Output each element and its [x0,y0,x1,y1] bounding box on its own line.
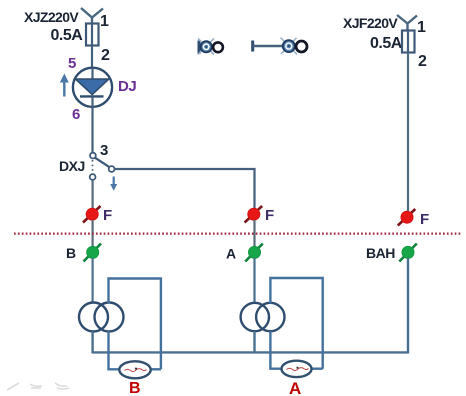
relay DJ (gas relay circle with triangle) [73,68,112,107]
meter PJ2 (energy meter A) [282,361,312,377]
svg-text:3: 3 [100,142,108,159]
icon: current transformer symbol 1 [198,39,223,55]
svg-text:0.5A: 0.5A [370,35,403,52]
indicator B (green, left) [84,244,102,262]
indicator F1 (red, left) [83,206,101,223]
wire DXJ throw to middle branch (node 169) [115,169,255,209]
indicator F2 (red, middle) [245,206,263,223]
svg-text:1: 1 [100,13,109,30]
wire meter PJ2 right lead [311,368,322,370]
svg-text:0.5A: 0.5A [51,27,84,44]
indicator BAH (green, right) [399,244,417,262]
fuse FU2 0.5A [402,30,415,53]
wire A indicator to transformer T2 [253,258,255,304]
antenna XJZ source symbol [81,8,103,24]
wire meter PJ1 right lead [151,368,161,370]
svg-text:XJZ220V: XJZ220V [24,9,79,25]
indicator A (green, middle) [245,244,262,262]
svg-text:B: B [66,245,76,261]
wire T1 secondary bottom to meter PJ1 [109,331,120,369]
wire B indicator to transformer T1 [91,258,93,304]
wire T2 primary bottom to bus [253,331,255,354]
fuse FU1 0.5A [86,23,99,46]
wire T2 secondary top loop [270,278,322,369]
wire fuse to relay DJ [91,46,93,69]
switch DXJ [90,153,115,180]
transformer T2 (middle, two overlapping circles) [241,303,285,331]
svg-text:F: F [103,207,112,224]
svg-text:A: A [226,246,236,262]
indicator F3 (red, right) [398,209,416,226]
svg-text:F: F [420,211,429,228]
wire T1 secondary top loop [109,279,161,370]
svg-text:6: 6 [72,106,80,123]
wire T2 secondary bottom to meter PJ2 [270,331,281,369]
antenna XJF source symbol [397,15,417,30]
svg-text:2: 2 [101,47,110,64]
arrow up beside DJ [60,74,69,97]
wire F1 to B indicator [91,220,93,247]
boundary dotted red line [14,233,462,235]
wire right fuse down to F3 [407,53,409,212]
faint watermark bottom-left [7,383,69,390]
svg-text:DXJ: DXJ [59,158,85,174]
wire BAH indicator down to bottom bus [407,258,409,354]
arrow down beside DXJ [110,177,117,191]
transformer T1 (left, two overlapping circles) [79,303,124,332]
svg-text:2: 2 [418,53,427,70]
wire F2 to A indicator [253,220,255,247]
wire DJ to switch DXJ [91,107,93,153]
svg-text:B: B [129,380,141,396]
wire DXJ bottom to F1 [91,180,93,209]
svg-text:F: F [265,207,274,224]
meter PJ1 (energy meter B) [119,361,150,378]
wire T1 primary bottom to bus [91,331,93,354]
svg-text:XJF220V: XJF220V [343,15,398,31]
svg-text:1: 1 [417,19,426,36]
icon: current transformer symbol 2 [253,38,307,55]
svg-text:5: 5 [68,55,76,72]
bottom bus wire [93,351,408,353]
svg-text:A: A [289,379,301,396]
svg-text:BAH: BAH [366,245,395,261]
svg-text:DJ: DJ [118,78,136,95]
